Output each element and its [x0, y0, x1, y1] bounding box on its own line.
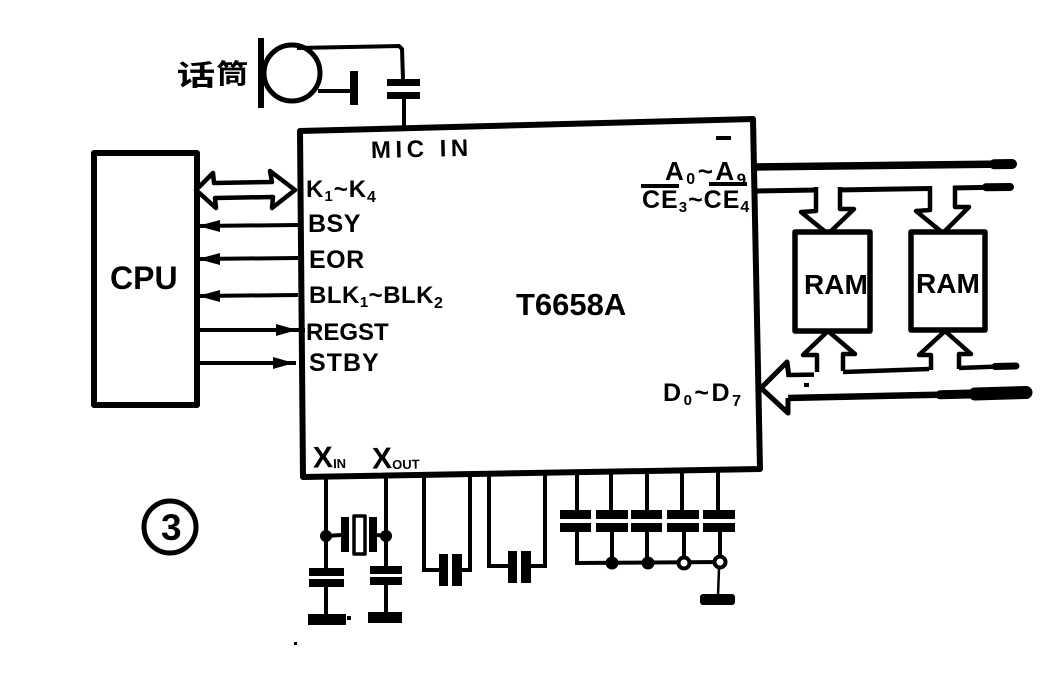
- wire pin down (pair2 left): [489, 474, 508, 566]
- wire C10 down: [718, 532, 722, 562]
- svg-text:RAM: RAM: [916, 268, 980, 299]
- microphone MK1 body: [264, 45, 320, 101]
- overline on CE3: [641, 184, 679, 188]
- wire XIN pin down: [324, 477, 328, 570]
- svg-text:EOR: EOR: [309, 246, 365, 274]
- chip-enable bus end blob: [986, 183, 1010, 191]
- address bus end blob: [994, 159, 1012, 169]
- capacitor C5 left plate: [508, 551, 517, 583]
- wire pin down cap bank 2: [609, 471, 613, 511]
- stray mark near IC top right: [716, 136, 731, 140]
- stray dot lower left: [294, 642, 297, 645]
- microphone MK1 back plate: [258, 38, 264, 108]
- wire pin down cap bank 4: [680, 470, 684, 511]
- capacitor C8 plate2: [631, 523, 662, 532]
- capacitor C7 plate2: [596, 523, 628, 532]
- wire dot to crystal left: [326, 535, 341, 536]
- capacitor C7 plate1: [596, 510, 628, 519]
- capacitor C1 (mic coupling) top plate: [387, 79, 420, 86]
- junction dot rail-C7: [606, 557, 619, 570]
- data bus channel top segment 2: [843, 369, 929, 372]
- svg-text:REGST: REGST: [306, 319, 389, 346]
- capacitor C3 plate2: [370, 577, 402, 585]
- capacitor C9 plate1: [667, 510, 699, 519]
- svg-text:STBY: STBY: [309, 349, 380, 377]
- svg-text:BLK1~BLK2: BLK1~BLK2: [309, 282, 443, 312]
- svg-text:CPU: CPU: [110, 260, 178, 296]
- wire C7 down: [610, 532, 614, 563]
- data bus channel bottom end blob: [940, 393, 1010, 395]
- svg-text:MIC IN: MIC IN: [371, 135, 473, 164]
- hollow arrow CE into RAM2: [916, 186, 969, 233]
- ground bar under C3: [368, 612, 402, 623]
- wire STBY with arrowhead to IC: [197, 361, 296, 365]
- data bus channel top end blob: [995, 363, 1016, 371]
- wire pin down cap bank 5: [716, 470, 720, 511]
- wire EOR with arrowhead to CPU: [199, 258, 298, 259]
- capacitor C4 right plate: [452, 554, 462, 586]
- common rail wire: [577, 562, 722, 563]
- CPU U2 body: [94, 153, 197, 405]
- svg-text:CE3~CE4: CE3~CE4: [642, 186, 750, 216]
- hollow arrow data bus into RAM1: [803, 331, 855, 372]
- hollow arrow data bus into RAM2: [919, 331, 971, 370]
- wire cap to MIC IN pin: [402, 99, 406, 130]
- RAM U3 body: [795, 232, 870, 331]
- wire mic to terminal: [318, 89, 350, 93]
- microphone terminal bar: [350, 71, 358, 105]
- hollow arrowhead D0~D7 into IC: [761, 362, 789, 413]
- svg-text:D0~D7: D0~D7: [663, 379, 743, 410]
- open junction rail-C10: [715, 557, 726, 568]
- junction dot XOUT: [380, 530, 392, 542]
- wire REGST with arrowhead to IC: [197, 328, 305, 332]
- junction dot rail-C8: [642, 557, 655, 570]
- svg-text:K1~K4: K1~K4: [306, 176, 377, 206]
- wire BSY with arrowhead to CPU: [199, 225, 298, 226]
- capacitor C2 plate2: [309, 579, 344, 587]
- wire pin down (pair2 right): [531, 473, 545, 566]
- figure number 3 (circled): [144, 501, 196, 553]
- crystal X1 body: [354, 516, 365, 554]
- capacitor C10 plate2: [703, 523, 735, 532]
- hollow arrow CE into RAM1: [801, 187, 854, 234]
- data bus channel bottom line: [787, 393, 1020, 398]
- chip-enable bus segment IC to arrow1: [757, 190, 817, 191]
- address bus A0~A9 line: [756, 164, 1010, 167]
- crystal X1 right plate: [369, 517, 377, 552]
- svg-text:RAM: RAM: [804, 269, 868, 300]
- wire XOUT pin down: [384, 476, 388, 569]
- capacitor C10 plate1: [703, 510, 735, 519]
- wire mic top to coupling cap: [297, 46, 403, 79]
- capacitor C6 plate1: [560, 510, 591, 519]
- wire pin down cap bank 3: [645, 471, 649, 511]
- capacitor C1 bottom plate: [387, 92, 420, 99]
- IC U1 T6658A body: [300, 119, 760, 477]
- data bus channel top segment 3: [959, 366, 1012, 368]
- wire pin down (pair1 right): [462, 474, 470, 570]
- wire C2 to ground: [324, 587, 328, 615]
- wire BLK with arrowhead to CPU: [199, 295, 298, 296]
- chip-enable bus segment arrow1 to arrow2: [837, 189, 931, 191]
- crystal X1 left plate: [341, 517, 349, 552]
- capacitor C4 left plate: [439, 554, 448, 586]
- capacitor C9 plate2: [667, 523, 699, 532]
- capacitor C6 plate2: [560, 523, 591, 532]
- junction dot XIN: [320, 530, 332, 542]
- capacitor C3 under XOUT plate1: [370, 566, 402, 574]
- svg-text:T6658A: T6658A: [516, 287, 626, 322]
- stray dot near D bus: [804, 383, 809, 387]
- svg-text:3: 3: [161, 507, 182, 548]
- wire rail to ground: [718, 568, 719, 596]
- capacitor C8 plate1: [631, 510, 662, 519]
- overline on CE4: [709, 182, 747, 186]
- open junction rail-C9: [679, 558, 690, 569]
- ground bar (rail): [700, 594, 735, 605]
- stray dot near XIN ground: [347, 616, 351, 620]
- capacitor C2 under XIN plate1: [309, 568, 344, 576]
- wire C9 down: [682, 532, 686, 563]
- bidirectional bus arrow CPU-K1~K4: [196, 171, 295, 208]
- wire pin down (pair1 left): [424, 475, 440, 570]
- RAM U4 body: [911, 232, 985, 330]
- wire C6 down: [577, 532, 579, 563]
- label 话筒 (microphone): [178, 60, 247, 88]
- wire C3 to ground: [384, 585, 388, 613]
- wire pin down cap bank 1: [575, 472, 579, 511]
- wire crystal right to dot: [377, 535, 386, 536]
- ground bar under C2: [308, 614, 346, 625]
- chip-enable bus segment arrow2 to end: [953, 187, 1005, 188]
- capacitor C5 right plate: [521, 551, 531, 583]
- wire C8 down: [645, 532, 649, 563]
- data bus channel top segment 1: [788, 372, 814, 377]
- svg-text:BSY: BSY: [308, 210, 361, 238]
